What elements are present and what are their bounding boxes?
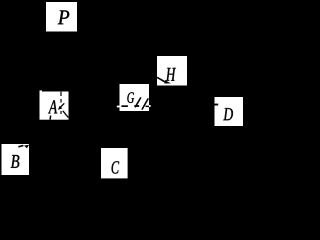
arrowhead in H box pointing down-right (164, 80, 171, 83)
line fragment lower-right of A box (63, 111, 69, 118)
arrowhead at top-right of B box (24, 145, 29, 148)
dash fragment inside D box left edge (215, 104, 219, 106)
label box C (101, 148, 128, 178)
hatch slash 1 in G box (135, 97, 141, 107)
dashed vertical line through A box (60, 92, 62, 114)
tick at bottom of A box (49, 116, 52, 120)
label box B (2, 144, 30, 175)
label box G (120, 84, 150, 111)
arrow in A box pointing down-left (58, 103, 64, 110)
label box H (157, 56, 187, 86)
white dash outside left edge of G box (117, 106, 120, 108)
hatch slash 2 in G box (142, 98, 148, 109)
label box D (215, 97, 244, 126)
leader line into H box (157, 77, 165, 82)
line fragment at top of B box (18, 146, 23, 147)
dashed horizontal line through G box (121, 105, 149, 107)
label box P (46, 2, 77, 32)
white slash fragment outside right edge of G box (149, 105, 151, 107)
label box A (40, 90, 69, 119)
